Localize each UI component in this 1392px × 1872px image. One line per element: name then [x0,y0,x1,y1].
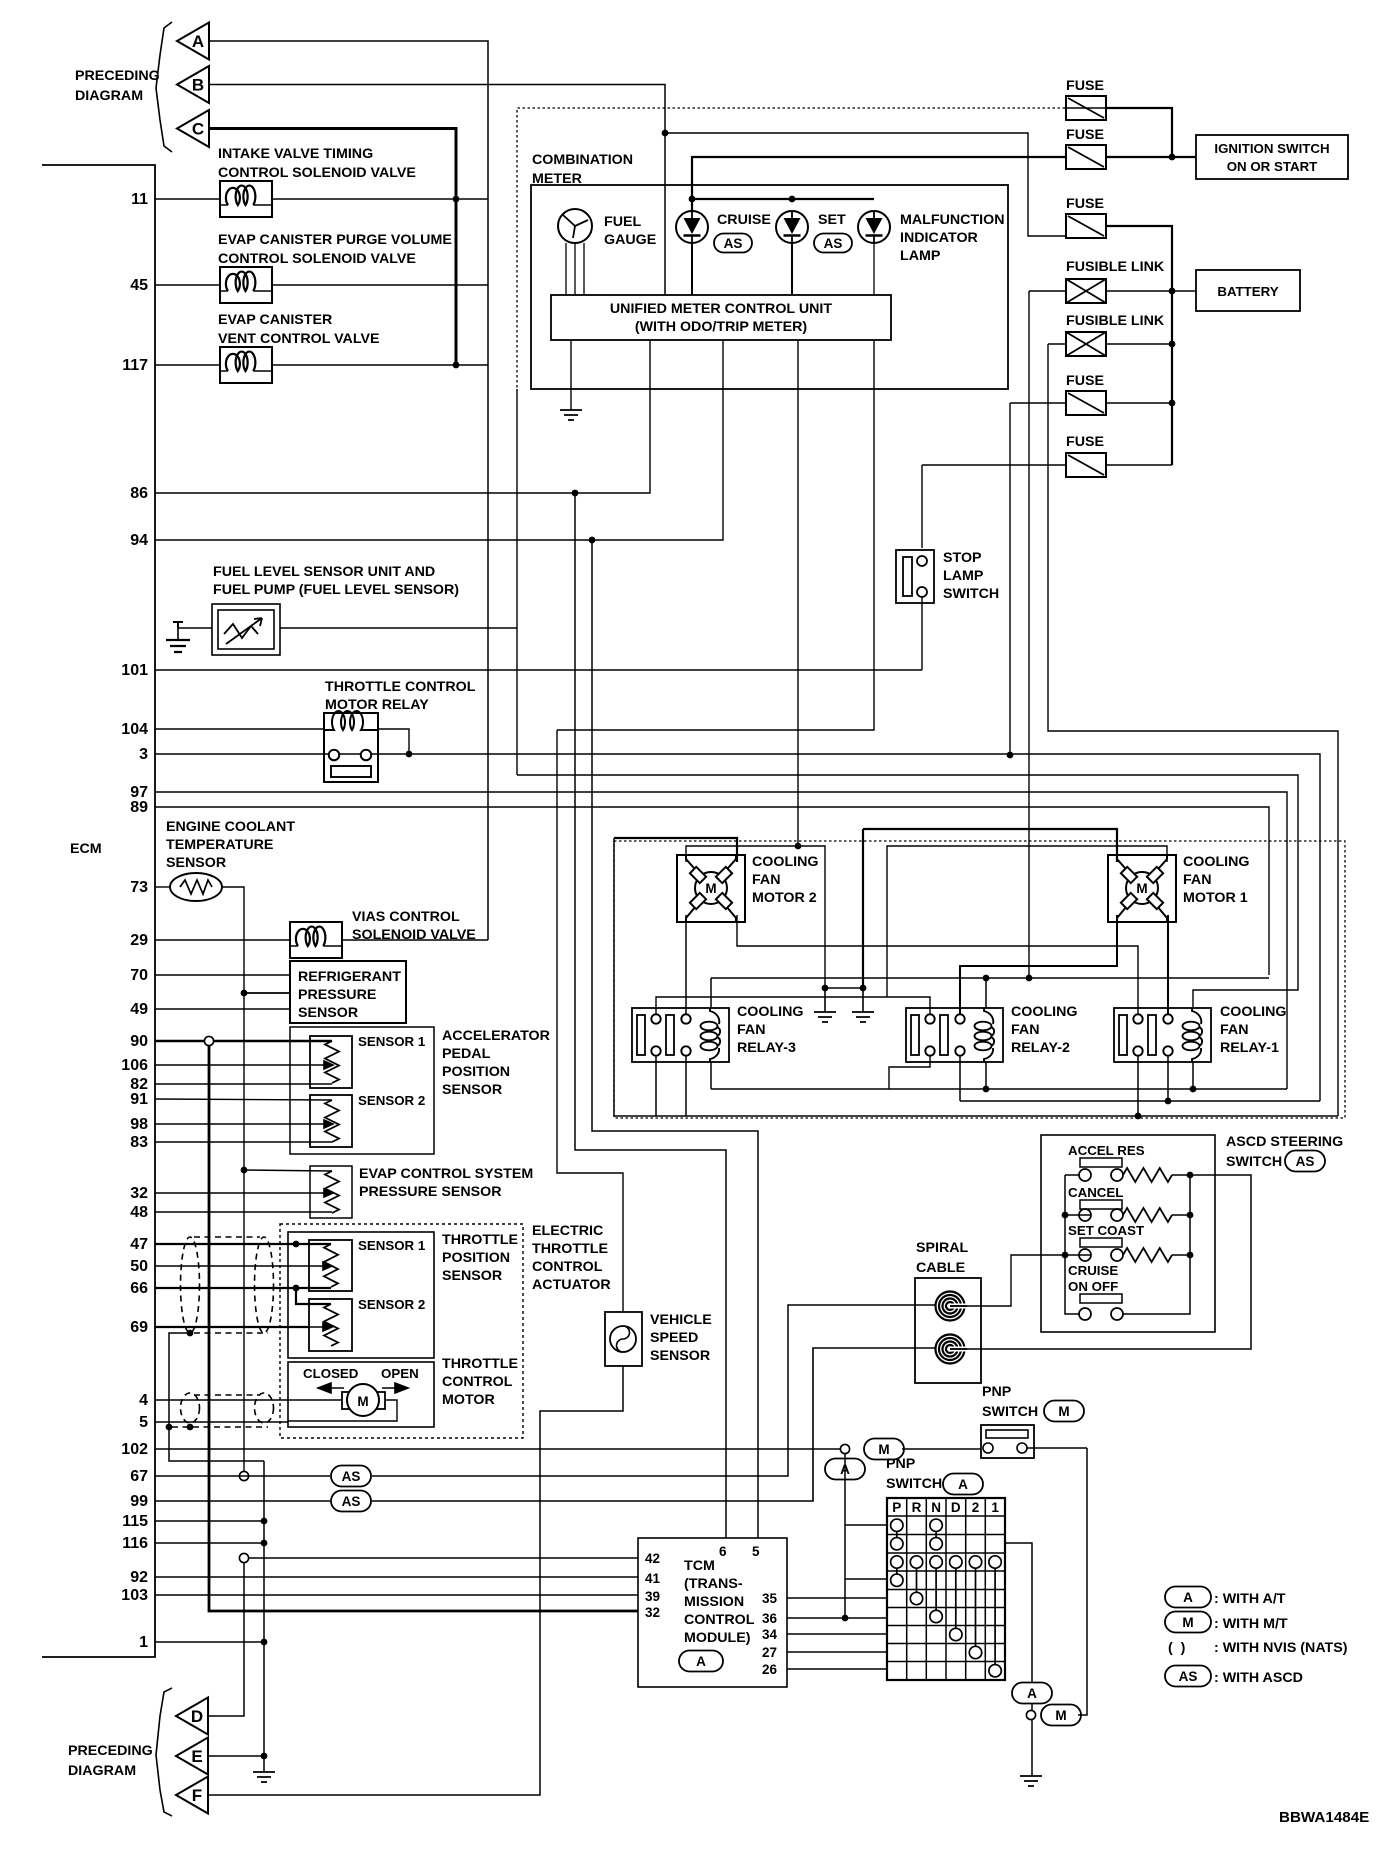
svg-text:66: 66 [130,1280,148,1297]
svg-text:AS: AS [1296,1154,1315,1169]
arrow: open direction [382,1383,408,1393]
wire: TCM pin 42 row [244,1557,638,1559]
svg-text:FUEL LEVEL SENSOR UNIT AND: FUEL LEVEL SENSOR UNIT AND [213,564,435,580]
wire: spiral cable lower to ASCD feed [950,1175,1251,1349]
fuse 5 [1066,453,1106,477]
svg-text:REFRIGERANT: REFRIGERANT [298,969,401,985]
wire: branch to fuse 3 [665,133,1065,236]
fusible link 2 [1066,332,1106,356]
ASCD steering switch box [1041,1135,1215,1332]
svg-text:THROTTLE: THROTTLE [532,1241,608,1257]
combination meter outer boundary (dashed) [517,108,1065,389]
wire: MT PNP switch return [1078,1448,1087,1715]
svg-text:: WITH M/T: : WITH M/T [1214,1616,1288,1632]
junction: lamp bus at set lamp [789,196,796,203]
junction: lamp bus at cruise lamp [689,196,696,203]
svg-text:94: 94 [130,532,148,549]
wire: feed line to cooling fan relay-1 coil [517,775,1298,1008]
set coast switch bar [1080,1238,1122,1247]
svg-text:: WITH ASCD: : WITH ASCD [1214,1670,1303,1686]
svg-text:(TRANS-: (TRANS- [684,1576,743,1592]
junction: TPS low [293,1285,300,1292]
svg-text:UNIFIED METER CONTROL UNIT: UNIFIED METER CONTROL UNIT [610,301,832,317]
wire: fusible link 2 down to cooling fan bus [1048,344,1338,1116]
wire: ground tap 2 drop [862,829,864,988]
wire: pin 48 to EVAP pressure sensor low [155,1211,332,1213]
wire: fuse 5 to battery bus corner [1106,464,1172,466]
svg-text:DIAGRAM: DIAGRAM [68,1763,136,1779]
svg-text:CANCEL: CANCEL [1068,1185,1123,1200]
svg-text:115: 115 [122,1513,148,1530]
wire: relay output to pin 3 row [378,729,409,754]
svg-text:2: 2 [972,1500,980,1515]
svg-text:SWITCH: SWITCH [886,1476,942,1492]
wire: ECM pin 99 row [155,1500,330,1502]
svg-text:PEDAL: PEDAL [442,1046,491,1062]
svg-text:A: A [1027,1686,1037,1701]
svg-text:P: P [892,1500,901,1515]
wire: fan2 top-right brush feed from battery bus [614,838,737,862]
connector circle: pin 90 supply [204,1036,213,1045]
junction: ignition switch node [1169,154,1176,161]
svg-text:IGNITION SWITCH: IGNITION SWITCH [1214,141,1329,156]
wire: pin 29 to VIAS solenoid [155,939,290,941]
fuel gauge symbol [558,209,592,243]
A option oval below pin 102 row [825,1459,865,1480]
accel res switch bar [1080,1158,1122,1167]
wire: TCM 35 to PNP switch [787,1597,887,1599]
wire: drop to vehicle speed sensor [557,730,623,1312]
svg-text:SENSOR 1: SENSOR 1 [358,1034,426,1049]
svg-text:MOTOR 2: MOTOR 2 [752,890,817,906]
svg-text:27: 27 [762,1645,777,1660]
wire: cruise lamp to UMCU [691,243,693,295]
AS option oval under set [814,234,852,253]
PNP switch column letters [892,1500,999,1515]
svg-text:47: 47 [130,1236,148,1253]
svg-text:FAN: FAN [1011,1022,1040,1038]
spiral cable coil lower [936,1335,965,1364]
wire: fan1 top-right brush to relay tie line [887,846,1167,997]
svg-text:102: 102 [121,1441,148,1458]
engine coolant temperature sensor symbol [170,873,222,901]
connector circle on TCM 42 row [239,1553,248,1562]
svg-text:VENT CONTROL VALVE: VENT CONTROL VALVE [218,331,380,347]
svg-text:FAN: FAN [1220,1022,1249,1038]
wire: ECM pin 1 row [155,1641,264,1643]
TPS sensor 1 box [309,1240,352,1291]
solenoid coil: EVAP canister purge volume control solenoid valve [220,267,272,303]
wire: pin 83 to APPS sensor 2 low [155,1141,332,1143]
EVAP pressure sensor resistor [325,1171,339,1213]
solenoid coil: intake valve timing control solenoid valve [220,181,272,217]
connector E (from preceding diagram) [176,1738,208,1775]
svg-text:CRUISE: CRUISE [1068,1263,1118,1278]
svg-text:SENSOR: SENSOR [442,1082,502,1098]
wire: PNP output to ground [1031,1704,1033,1776]
svg-text:THROTTLE: THROTTLE [442,1356,518,1372]
svg-text:SPEED: SPEED [650,1330,698,1346]
wire: MIL/UMCU leg down, across to left drop [557,340,874,730]
wire: pin 11 to intake valve timing solenoid [155,198,220,200]
junction: A-option drop on TCM 36 row [842,1615,849,1622]
wire: pin 90 to sensor supply node [155,1040,205,1042]
M option oval at PNP output [1041,1705,1081,1726]
wire: fuel gauge leg 3 [583,243,585,295]
svg-text:86: 86 [130,485,148,502]
svg-text:32: 32 [645,1605,660,1620]
connector circle at PNP output [1026,1710,1035,1719]
fuse 4 [1066,391,1106,415]
junction: ASCD right bus at cancel [1187,1212,1194,1219]
svg-text:CABLE: CABLE [916,1260,965,1276]
junction: fuse 4 to pin 3 row [1007,752,1014,759]
svg-text:FAN: FAN [752,872,781,888]
svg-text:FUSE: FUSE [1066,127,1104,143]
junction: battery bus at fusible link 2 [1169,341,1176,348]
wire: A option drop line [844,1454,846,1618]
wire: TCM pin 5 up and across to pin 94 row [592,540,758,1538]
wire: combination meter frame drop to relay-1 coil feed [516,389,518,775]
connector circle on pin 102 row [840,1444,849,1453]
wire: pin 106 to APPS sensor 1 wiper [155,1064,310,1066]
cancel switch bar [1080,1200,1122,1209]
svg-text:PRESSURE: PRESSURE [298,987,376,1003]
wire: relay-3 coil to coil bus [710,978,712,1008]
connector C (from preceding diagram) [177,110,209,147]
svg-text:GAUGE: GAUGE [604,232,656,248]
M option oval at PNP MT label [1044,1401,1084,1422]
wire: ECM pin 67 row [155,1475,330,1477]
wire: main cooling fan bus (battery feed) [614,838,1338,1116]
wire: pin 117 to EVAP canister vent valve [155,364,220,366]
wire: fan1 top-left brush to ground tap 2 [863,829,1117,862]
wire: EVAP vent valve to A feed [272,364,488,366]
wire: relay-2 coil return drop [985,1062,987,1089]
legend A oval [1165,1587,1211,1608]
svg-text:INTAKE VALVE TIMING: INTAKE VALVE TIMING [218,146,373,162]
svg-text:92: 92 [130,1569,148,1586]
wire: relay-2 contact to contact bus [959,1056,961,1101]
legend M oval [1165,1612,1211,1633]
AS option oval on pin 67 row [331,1466,371,1487]
svg-text:49: 49 [130,1001,148,1018]
svg-text:ASCD STEERING: ASCD STEERING [1226,1134,1343,1150]
junction: C line at pin 117 row [453,362,460,369]
solenoid coil: VIAS control solenoid valve [290,922,342,958]
junction: relay-1 coil return [1190,1086,1197,1093]
wire: cruise lamp feed from fuse 2 line [691,156,693,211]
ASCD resistor row 2 [1123,1208,1172,1222]
wire: fuse 2 line to cruise lamp feed [692,156,1065,158]
wire: throttle motor return inside box [288,1400,397,1421]
junction: relay-1 contact on main bus [1135,1113,1142,1120]
wire: TCM pin 6 up and across to pin 86 row [575,493,726,1538]
svg-text:11: 11 [131,191,148,208]
svg-text:73: 73 [130,879,148,896]
connector D (from preceding diagram) [176,1698,208,1735]
wire: ECM pin 3 row to cooling relay contact bus [155,754,1320,1101]
throttle control motor symbol [342,1392,350,1409]
svg-text:50: 50 [130,1258,148,1275]
svg-text:35: 35 [762,1591,778,1606]
svg-text:PRECEDING: PRECEDING [75,68,160,84]
svg-text:39: 39 [645,1589,660,1604]
svg-text:C: C [192,120,204,139]
wire: fuse 1 to ignition node [1106,108,1172,157]
cooling fan section boundary (dashed) [614,841,1345,1118]
ground line between taps [825,987,863,989]
svg-text:PNP: PNP [886,1456,916,1472]
svg-text:26: 26 [762,1662,778,1677]
wire: connector C down to solenoid valve rows [209,129,456,366]
svg-text:103: 103 [121,1587,148,1604]
wire: PNP MT internal to return [1027,1447,1087,1449]
throttle relay contact circles (over wire) [329,750,339,760]
wire: lamp top bus [692,198,874,200]
cooling fan relay-2 [906,1008,1003,1062]
wire: sensor supply bus down to TCM pin 32 [209,1046,638,1611]
svg-text:LAMP: LAMP [943,568,984,584]
wire: fan1 bottom-left to relay-2 contact [960,915,1117,1014]
PNP switch (MT) box [981,1425,1034,1458]
junction: pin 1 on ground bus [261,1639,268,1646]
svg-text:D: D [951,1500,961,1515]
svg-text:R: R [912,1500,922,1515]
svg-text:EVAP CANISTER PURGE VOLUME: EVAP CANISTER PURGE VOLUME [218,232,452,248]
svg-text:CONTROL: CONTROL [442,1374,513,1390]
wire: pin 99 row to spiral cable (lower) [372,1348,936,1501]
svg-text:M: M [1182,1615,1193,1630]
throttle control motor relay box [324,713,378,782]
indicator lamp: CRUISE [676,211,708,243]
wire: A drop branch into PNP switch row 4 [845,1578,887,1580]
wire: pin 32 to EVAP pressure sensor [155,1192,310,1194]
svg-text:3: 3 [139,746,148,763]
svg-text:POSITION: POSITION [442,1064,510,1080]
wire: UMCU to ECM pin 86 [155,340,650,493]
svg-text:FUSIBLE LINK: FUSIBLE LINK [1066,259,1165,275]
wire: fuse 5 to stop lamp switch feed [922,464,1066,466]
svg-text:91: 91 [130,1091,148,1108]
svg-text:M: M [1136,881,1147,896]
shield dashed bridge bottom [194,1332,268,1334]
svg-text:32: 32 [130,1185,148,1202]
svg-text:TCM: TCM [684,1558,715,1574]
svg-text:45: 45 [130,277,148,294]
wire: TCM 36 to PNP switch [787,1617,887,1619]
wire: spiral cable upper to ASCD set/coast row [950,1255,1065,1306]
svg-text:A: A [1183,1590,1193,1605]
svg-text:70: 70 [130,967,148,984]
svg-text:ACTUATOR: ACTUATOR [532,1277,611,1293]
fuse (second, to ignition switch) [1066,145,1106,169]
svg-text:116: 116 [122,1535,148,1552]
svg-text:SENSOR 2: SENSOR 2 [358,1297,425,1312]
svg-text:M: M [1058,1404,1069,1419]
wire: fusible link 2 to battery bus [1106,343,1172,345]
svg-text:CONTROL: CONTROL [684,1612,755,1628]
wire: relay-3 contact to main bus [655,1056,657,1116]
wire: EVAP purge solenoid to A feed [272,284,488,286]
wire: A drop branch into PNP switch row 1 [845,1524,887,1526]
PNP switch grid [887,1498,1005,1680]
svg-text:SENSOR: SENSOR [166,855,226,871]
svg-text:69: 69 [130,1319,148,1336]
svg-text:FAN: FAN [737,1022,766,1038]
svg-text:SENSOR: SENSOR [442,1268,502,1284]
svg-text:1: 1 [991,1500,999,1515]
svg-text:BBWA1484E: BBWA1484E [1279,1809,1369,1826]
svg-text:FUSE: FUSE [1066,78,1104,94]
refrigerant pressure sensor box [290,961,406,1023]
AS option oval at ASCD label [1285,1151,1325,1172]
PNP switch contact circles and links [891,1519,1002,1677]
junction: relay output on pin 3 row [406,751,413,758]
wire: pin 47 to TPS sensor 1 high [155,1243,331,1245]
throttle control motor box [288,1362,434,1427]
wire: relay-1 contact to main bus [1137,1056,1139,1116]
svg-text:FUSIBLE LINK: FUSIBLE LINK [1066,313,1165,329]
ground: cooling fan tap 2 [852,1012,874,1022]
svg-text:SWITCH: SWITCH [1226,1154,1282,1170]
cooling fan motor 1 [1108,855,1176,922]
junction: motor shield ground tie 1 [166,1424,173,1431]
wire: shield drain down to ground bus [169,1333,264,1461]
svg-text:AS: AS [1179,1669,1198,1684]
svg-text:MOTOR: MOTOR [442,1392,495,1408]
svg-text:M: M [357,1394,368,1409]
wire: pin 50 to TPS sensor 1 wiper [155,1265,309,1267]
svg-text:MISSION: MISSION [684,1594,744,1610]
wire: pin 67 row to spiral cable (upper) [372,1305,936,1476]
svg-text:METER: METER [532,171,582,187]
junction: pin 94 row to TCM-5 drop [589,537,596,544]
solenoid coil: EVAP canister vent control valve [220,347,272,383]
svg-text:E: E [191,1747,202,1766]
ground: ECM signal ground [253,1772,275,1782]
wire: PNP switch common to A option [1005,1543,1032,1682]
ground: cooling fan tap 1 [814,1012,836,1022]
svg-text:RELAY-1: RELAY-1 [1220,1040,1279,1056]
svg-text:98: 98 [130,1116,148,1133]
spiral cable coil upper [936,1292,965,1321]
svg-text:A: A [958,1477,968,1492]
throttle position sensor box [288,1232,434,1358]
wire: supply into APPS sensor 1 [213,1040,332,1042]
wire: fan1 bottom-right to relay-1 contact [1167,915,1169,1014]
svg-text:83: 83 [130,1134,148,1151]
svg-text:36: 36 [762,1611,778,1626]
svg-text:ON OFF: ON OFF [1068,1279,1118,1294]
svg-text:117: 117 [122,357,148,374]
wire: TCM 26 to PNP switch [787,1668,887,1670]
junction: C line at pin 11 row [453,196,460,203]
wire: pin 70 to refrigerant pressure sensor [155,974,290,976]
wire: fuel gauge leg 2 [574,243,576,295]
wire: TCM 34 to PNP switch [787,1633,887,1635]
fuel level sensor symbol [212,604,280,655]
wire: stop lamp switch feed [921,465,923,548]
ECM pin number labels [121,191,148,1651]
svg-text:MOTOR 1: MOTOR 1 [1183,890,1248,906]
wire: UMCU ground leg [570,340,572,410]
wire: fuel gauge leg 1 [565,243,567,295]
svg-text:MODULE): MODULE) [684,1630,751,1646]
brace for A B C connectors [156,22,172,152]
ASCD switch contacts and resistors [1079,1169,1091,1181]
wire: ground stub 2 [862,988,864,1012]
APPS sensor 2 box [310,1095,352,1147]
wire: relay-3 contact to relay-2 contact tie [656,997,930,1014]
APPS sensor 1 box [310,1036,352,1088]
svg-text:SWITCH: SWITCH [982,1404,1038,1420]
junction: battery node [1169,288,1176,295]
cooling fan relay-3 [632,1008,729,1062]
junction: sensor bus at refrigerant sensor [241,990,248,997]
svg-text:SPIRAL: SPIRAL [916,1240,969,1256]
junction: relay-2 coil return [983,1086,990,1093]
svg-text:CONTROL: CONTROL [532,1259,603,1275]
wire: fusible link 2 left stub [1048,343,1066,345]
ground: combination meter [560,410,582,420]
svg-text:B: B [192,76,204,95]
svg-text:5: 5 [752,1544,760,1559]
wire: connector E to ground bus [208,1755,264,1757]
svg-text:M: M [1055,1708,1066,1723]
svg-text:VIAS CONTROL: VIAS CONTROL [352,909,460,925]
wire: connector B to unified meter control unit [209,85,665,296]
connector B (from preceding diagram) [177,66,209,103]
wire: fuel level sensor to combination meter drop [280,627,517,629]
svg-text:29: 29 [130,932,148,949]
wire: set lamp to UMCU [791,243,793,295]
svg-text:CLOSED: CLOSED [303,1366,359,1381]
wire: relay contact bus (pin 3) [960,1100,1320,1102]
svg-text:COMBINATION: COMBINATION [532,152,633,168]
svg-text:AS: AS [342,1469,361,1484]
svg-text:SENSOR: SENSOR [650,1348,710,1364]
svg-text:SENSOR 2: SENSOR 2 [358,1093,425,1108]
wire: sensor bus to EVAP pressure sensor [244,1170,332,1171]
arrow: closed direction [318,1383,344,1393]
wire: fuse 2 to ignition switch [1106,156,1196,158]
svg-text:M: M [705,881,716,896]
junction: ground tap 2 [860,985,867,992]
svg-text:PRECEDING: PRECEDING [68,1743,153,1759]
svg-text:FUSE: FUSE [1066,196,1104,212]
junction: motor shield ground tie 2 [187,1424,194,1431]
svg-text:THROTTLE: THROTTLE [442,1232,518,1248]
wire: pin 5 to throttle motor return [155,1421,288,1423]
shield (dashed) around TPS signal wires, right [255,1237,274,1333]
svg-text:INDICATOR: INDICATOR [900,230,978,246]
shield (dashed) around motor wires, left [181,1393,200,1423]
wire: fan2 bottom-left to relay-3 contact [685,915,687,1014]
wire: UMCU to ECM pin 94 [155,340,723,540]
wire: pin 45 to EVAP canister purge solenoid [155,284,220,286]
wire: relay-2 contact to return bus [889,1056,930,1089]
svg-text:AS: AS [724,236,743,251]
wire: relay coil bus [711,977,1269,979]
ground: PNP switch [1020,1776,1042,1786]
wire: ECM pin 116 row [155,1542,264,1544]
wire: relay-3 coil return [710,1062,712,1089]
junction: ASCD left bus at set coast [1062,1252,1069,1259]
wire: pin 49 to refrigerant pressure sensor [155,1008,290,1010]
wire: relay-2 coil to coil bus [985,978,987,1008]
wire: pin 69 to TPS sensor 2 wiper [155,1326,309,1328]
